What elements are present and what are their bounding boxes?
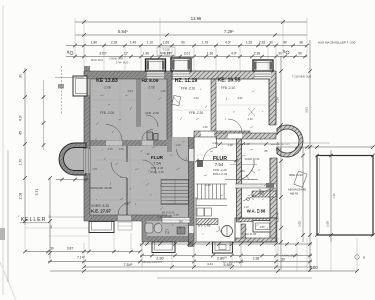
svg-text:4.0⁵: 4.0⁵ xyxy=(231,51,237,55)
svg-text:1.90: 1.90 xyxy=(143,51,149,55)
door arc HZ8.06 xyxy=(146,115,158,127)
svg-text:MB 48: MB 48 xyxy=(290,192,299,196)
svg-text:3.01: 3.01 xyxy=(305,107,309,113)
svg-text:1.46: 1.46 xyxy=(276,212,280,218)
extension lines top xyxy=(75,18,307,70)
svg-text:2.62: 2.62 xyxy=(193,96,199,100)
faint interior lines gray rooms xyxy=(90,79,167,215)
bottom extension walls xyxy=(142,236,194,242)
door jamb line corridor xyxy=(216,137,218,148)
svg-text:FFB -2.08: FFB -2.08 xyxy=(100,111,114,115)
svg-text:X: X xyxy=(67,50,70,55)
round bay wall ring xyxy=(59,143,86,175)
faint interior lines white rooms xyxy=(172,105,269,155)
svg-text:4.41: 4.41 xyxy=(207,262,213,266)
svg-text:1.26: 1.26 xyxy=(246,41,252,45)
corner pier above wall xyxy=(84,66,90,71)
svg-text:BRE 41.90: BRE 41.90 xyxy=(289,173,303,177)
wall right of white flur xyxy=(237,139,242,222)
landing bar in extension xyxy=(162,218,190,224)
wall below HZ11.19 (corridor wall) xyxy=(194,131,250,137)
right vertical dimension line 2 xyxy=(309,40,311,272)
svg-text:2.08: 2.08 xyxy=(19,193,23,200)
gray existing-building mass (basement rooms) xyxy=(84,71,194,242)
svg-text:HZ 8.06: HZ 8.06 xyxy=(141,78,158,84)
dimension row D xyxy=(66,56,307,58)
dimension row C xyxy=(66,45,307,47)
window light-shaft W1 xyxy=(146,59,166,71)
partition wall HZ11.19 / KE16.55 xyxy=(211,79,216,133)
right vertical dim at NU left xyxy=(302,147,304,242)
svg-text:MAG SUS: MAG SUS xyxy=(91,58,103,62)
svg-text:FFB -2.08: FFB -2.08 xyxy=(145,111,159,115)
dim ticks under bay xyxy=(56,179,89,181)
svg-text:1.65: 1.65 xyxy=(163,41,169,45)
wall segment x194-196 lower xyxy=(195,197,197,242)
window light-shaft W2 xyxy=(171,58,191,71)
hatched bottom wall left segment xyxy=(196,219,218,225)
partition wall KE13.83 / HZ8.06 xyxy=(136,79,141,127)
svg-text:1.46: 1.46 xyxy=(130,41,136,45)
svg-text:T-218 MHD 26/8: T-218 MHD 26/8 xyxy=(292,75,312,79)
gray block right wall (lower, beside stair) xyxy=(189,137,195,247)
svg-text:2.51: 2.51 xyxy=(157,215,163,219)
left vertical line far xyxy=(7,150,9,282)
scan smudge left edge xyxy=(0,228,5,240)
svg-text:5.84⁵: 5.84⁵ xyxy=(118,29,128,34)
svg-text:2.01: 2.01 xyxy=(184,51,190,55)
svg-text:C.WO 41.90: C.WO 41.90 xyxy=(242,232,257,236)
shaft double-line box xyxy=(253,221,272,233)
small steps outside bottom wall xyxy=(118,222,132,230)
svg-text:7.14⁵: 7.14⁵ xyxy=(77,256,86,260)
svg-text:30: 30 xyxy=(281,258,285,262)
door arc bottom wall gray xyxy=(118,202,131,215)
small gray mark left xyxy=(58,84,64,89)
svg-text:FFB -2.26: FFB -2.26 xyxy=(181,87,195,91)
svg-text:SMS WELGE OVO: SMS WELGE OVO xyxy=(271,144,290,146)
svg-text:1.75: 1.75 xyxy=(173,213,179,217)
right exterior wall lower xyxy=(270,158,277,242)
svg-text:1.88: 1.88 xyxy=(259,225,265,229)
fixtures HZ8.06 xyxy=(147,132,153,140)
svg-text:2.26: 2.26 xyxy=(205,183,211,187)
svg-text:1.00: 1.00 xyxy=(298,221,302,227)
interior wall below KE13.83 xyxy=(90,140,167,146)
svg-text:7.54: 7.54 xyxy=(215,162,224,167)
svg-text:FFB -2.26: FFB -2.26 xyxy=(189,111,203,115)
svg-text:90: 90 xyxy=(298,51,302,55)
svg-text:4.0⁵: 4.0⁵ xyxy=(225,41,231,45)
svg-text:2.26: 2.26 xyxy=(247,117,253,121)
N.U annex rectangle xyxy=(317,156,373,236)
bottom dim row 4 xyxy=(48,261,312,263)
svg-text:1.10: 1.10 xyxy=(147,41,153,45)
svg-text:1.40: 1.40 xyxy=(202,125,208,129)
svg-text:1.13: 1.13 xyxy=(258,188,262,194)
svg-text:7.54: 7.54 xyxy=(153,161,162,166)
svg-text:13.96: 13.96 xyxy=(191,16,202,21)
bath fixtures in extension xyxy=(145,223,153,233)
svg-text:30: 30 xyxy=(269,41,273,45)
wall stub between flur and stair (gray) xyxy=(167,137,172,152)
dark box in extension xyxy=(177,227,185,234)
dimension row B (5.84 / 7.29) xyxy=(75,34,307,36)
bottom dim row 1 xyxy=(140,243,312,245)
top exterior wall (new part) xyxy=(172,71,275,79)
scan corner curl bottom-left xyxy=(0,262,16,300)
svg-text:7.9: 7.9 xyxy=(165,231,170,235)
dimension row A (13.96) xyxy=(75,21,307,23)
extension lines bottom-left light well xyxy=(89,233,131,251)
window opening top wall 1 xyxy=(147,72,164,79)
connector lines to light well left xyxy=(25,227,89,229)
svg-text:1.36: 1.36 xyxy=(207,51,213,55)
svg-text:3.96: 3.96 xyxy=(237,96,243,100)
bottom dim row 7 xyxy=(157,277,312,279)
door arc HZ8.06 up xyxy=(142,130,153,141)
svg-text:2.26: 2.26 xyxy=(276,97,280,103)
svg-text:45: 45 xyxy=(19,131,23,135)
wall under stair room xyxy=(235,184,276,188)
svg-text:7.54⁵: 7.54⁵ xyxy=(124,263,133,267)
NU corner ticks xyxy=(315,233,319,237)
left vertical dimension line 1 xyxy=(24,68,26,225)
left vertical dimension line 2 xyxy=(49,178,51,258)
svg-text:4.26: 4.26 xyxy=(107,147,113,151)
svg-text:1.40: 1.40 xyxy=(332,193,336,199)
round bay gray interior xyxy=(59,143,86,175)
svg-text:1.80: 1.80 xyxy=(239,169,245,173)
svg-text:2.80¹⁰: 2.80¹⁰ xyxy=(217,257,228,261)
svg-text:1.00: 1.00 xyxy=(175,143,181,147)
bottom dim row 2 (left) xyxy=(25,251,140,253)
interior partition lower-left room xyxy=(126,146,128,162)
svg-text:SOND 60.95: SOND 60.95 xyxy=(245,157,260,161)
svg-text:30: 30 xyxy=(278,51,282,55)
door arc KE16.55 xyxy=(228,119,242,133)
svg-text:90: 90 xyxy=(181,41,185,45)
svg-text:KE. 16.55: KE. 16.55 xyxy=(217,78,240,84)
horizontal line right mid 2 xyxy=(277,142,330,144)
gray block right wall (upper) xyxy=(167,71,172,137)
svg-text:MHD 26/8: MHD 26/8 xyxy=(160,51,172,55)
svg-text:2.26: 2.26 xyxy=(251,194,255,200)
svg-text:3.20⁵: 3.20⁵ xyxy=(99,51,107,55)
light well bottom-center xyxy=(152,242,175,253)
top exterior wall (gray part) xyxy=(84,71,172,79)
svg-text:W.A. D 88: W.A. D 88 xyxy=(198,224,211,228)
svg-text:K.E. 27.97: K.E. 27.97 xyxy=(91,209,111,214)
wall outline edges xyxy=(84,70,275,72)
wall below boiler room xyxy=(241,224,246,240)
door arc flur gray xyxy=(142,160,156,174)
svg-text:90: 90 xyxy=(283,41,287,45)
svg-text:-2.08: -2.08 xyxy=(147,86,154,90)
svg-text:1.90: 1.90 xyxy=(212,141,218,145)
svg-text:W.A. ⎕ 88: W.A. ⎕ 88 xyxy=(247,209,266,214)
small rects right of stair xyxy=(266,183,274,188)
svg-text:3.87: 3.87 xyxy=(67,247,74,251)
window light-shaft W3 xyxy=(253,60,273,71)
left small dim line window xyxy=(61,66,63,114)
svg-text:4.87: 4.87 xyxy=(124,202,130,206)
svg-text:2.51: 2.51 xyxy=(92,167,98,171)
svg-text:11⁵: 11⁵ xyxy=(124,51,129,55)
svg-text:2.26: 2.26 xyxy=(160,89,166,93)
svg-text:5.71: 5.71 xyxy=(35,189,39,196)
winder stair curve white part xyxy=(242,166,255,180)
door gap lower in gray right wall xyxy=(189,226,194,233)
corridor dim line xyxy=(217,143,276,145)
bottom wall gray block xyxy=(84,215,172,221)
extension lines bottom xyxy=(25,222,276,268)
svg-text:1.80: 1.80 xyxy=(91,41,97,45)
svg-text:VORR. 5.35: VORR. 5.35 xyxy=(91,204,109,208)
svg-text:ROH -2.44: ROH -2.44 xyxy=(213,172,228,176)
door arc KE13.83 up xyxy=(106,125,122,141)
window opening top wall 3 xyxy=(255,72,271,79)
svg-text:1.13: 1.13 xyxy=(243,205,249,209)
svg-text:5.85⁵: 5.85⁵ xyxy=(224,263,233,267)
svg-text:30: 30 xyxy=(19,74,23,78)
light well bottom-left xyxy=(89,222,114,233)
svg-text:ROH -2.26: ROH -2.26 xyxy=(150,170,164,174)
bay mouth opening in left wall xyxy=(84,149,90,173)
drain symbol bottom right xyxy=(355,255,359,259)
svg-text:2-MHD 26/8: 2-MHD 26/8 xyxy=(109,57,124,61)
right vertical dim inside NU xyxy=(330,150,332,242)
svg-text:AUS MA 38 KELLER T -230: AUS MA 38 KELLER T -230 xyxy=(318,41,356,45)
door gap interior wall xyxy=(106,141,122,146)
svg-text:2.28: 2.28 xyxy=(111,41,117,45)
fixtures bay area xyxy=(294,171,307,187)
bottom dim row 5 xyxy=(84,266,312,268)
bottom-right room walls xyxy=(235,218,276,242)
svg-text:T-218: T-218 xyxy=(162,48,170,52)
window light-shaft left wall xyxy=(73,76,87,96)
svg-text:2.80: 2.80 xyxy=(156,257,163,261)
hatched bottom wall right segment xyxy=(239,219,278,222)
svg-text:1.70: 1.70 xyxy=(19,159,23,166)
svg-text:AB ANL 150/175: AB ANL 150/175 xyxy=(142,260,162,264)
svg-text:2.38: 2.38 xyxy=(254,51,260,55)
svg-text:KELLER: KELLER xyxy=(21,217,46,223)
svg-text:1.00: 1.00 xyxy=(326,221,330,227)
window opening left wall xyxy=(85,79,90,95)
boiler circle xyxy=(222,226,233,237)
wall below KE16.55 xyxy=(216,133,276,139)
svg-text:30: 30 xyxy=(50,247,54,251)
svg-text:2.38: 2.38 xyxy=(253,257,260,261)
scan edge artifact left xyxy=(2,5,4,295)
svg-text:FLUR: FLUR xyxy=(151,155,164,160)
misc detail specks xyxy=(95,89,268,235)
washer/dryer squares xyxy=(197,208,204,216)
drain pipe diagonal xyxy=(243,189,270,201)
svg-text:7.29⁵: 7.29⁵ xyxy=(224,29,234,34)
svg-text:4.3⁵: 4.3⁵ xyxy=(19,114,23,121)
svg-text:1.26: 1.26 xyxy=(118,147,124,151)
svg-text:1.44⁵ SUS: 1.44⁵ SUS xyxy=(116,61,128,65)
bottom dim row 6 (500) xyxy=(50,270,357,272)
door gap in gray right wall xyxy=(189,149,194,161)
door arc bottom right xyxy=(219,226,230,237)
bottom dim row 3 xyxy=(140,255,312,257)
svg-text:KE 13.83: KE 13.83 xyxy=(96,78,118,84)
door gap xyxy=(201,132,214,137)
svg-text:1.38: 1.38 xyxy=(227,143,233,147)
door gap in bottom wall xyxy=(118,216,131,222)
hatched wall mid right xyxy=(252,191,276,197)
left exterior wall xyxy=(84,71,90,221)
svg-text:WASCHK 30.08: WASCHK 30.08 xyxy=(90,186,112,190)
svg-text:38: 38 xyxy=(299,41,303,45)
dim line inside white flur xyxy=(197,160,236,162)
light well bottom-right xyxy=(213,242,233,253)
diagonal marks KE16.55 xyxy=(248,108,255,116)
door arc corridor white xyxy=(204,148,217,161)
right exterior wall upper xyxy=(269,71,276,125)
svg-text:HZ. 11.19: HZ. 11.19 xyxy=(175,78,198,84)
svg-text:3.64: 3.64 xyxy=(127,89,133,93)
svg-text:FFB -2.10: FFB -2.10 xyxy=(221,86,235,90)
semicircular stair bay right side xyxy=(277,125,303,157)
svg-text:2.38: 2.38 xyxy=(259,41,265,45)
right vertical dimension line 1 xyxy=(280,56,282,270)
svg-text:-2.08: -2.08 xyxy=(103,86,110,90)
horizontal connector right of bay xyxy=(277,146,373,148)
fixture mark HZ11.19 xyxy=(172,95,181,105)
svg-text:1.80: 1.80 xyxy=(213,156,219,160)
svg-text:1.76: 1.76 xyxy=(202,41,208,45)
extension lines bottom right xyxy=(278,238,357,271)
staircase in gray block (horizontal treads) xyxy=(161,180,189,205)
staircase white part straight flight xyxy=(196,184,227,206)
window opening top wall 2 xyxy=(173,72,189,79)
